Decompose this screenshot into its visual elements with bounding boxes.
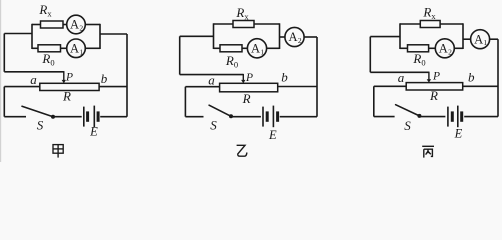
svg-text:A: A bbox=[251, 42, 260, 56]
svg-text:1: 1 bbox=[79, 47, 83, 56]
svg-text:a: a bbox=[398, 70, 405, 85]
svg-text:R: R bbox=[62, 89, 71, 104]
svg-text:A: A bbox=[474, 32, 483, 46]
svg-text:A: A bbox=[439, 42, 448, 56]
svg-text:b: b bbox=[468, 70, 475, 85]
svg-text:2: 2 bbox=[298, 36, 302, 45]
svg-text:a: a bbox=[208, 72, 215, 87]
svg-text:2: 2 bbox=[448, 47, 452, 56]
svg-text:P: P bbox=[65, 72, 73, 84]
svg-text:R: R bbox=[242, 91, 251, 106]
svg-text:A: A bbox=[70, 42, 79, 56]
svg-text:b: b bbox=[281, 69, 288, 84]
svg-text:A: A bbox=[70, 18, 79, 32]
svg-text:P: P bbox=[432, 71, 440, 83]
svg-text:R: R bbox=[429, 88, 438, 103]
svg-text:1: 1 bbox=[260, 47, 264, 56]
svg-text:a: a bbox=[30, 72, 37, 87]
svg-text:S: S bbox=[37, 118, 44, 133]
svg-text:b: b bbox=[101, 71, 108, 86]
svg-text:P: P bbox=[245, 72, 253, 84]
svg-text:E: E bbox=[89, 124, 98, 138]
svg-text:S: S bbox=[404, 118, 411, 133]
svg-text:S: S bbox=[210, 118, 217, 133]
svg-text:A: A bbox=[288, 30, 297, 44]
svg-text:E: E bbox=[268, 128, 277, 142]
svg-text:2: 2 bbox=[79, 24, 83, 33]
svg-text:E: E bbox=[454, 127, 463, 141]
svg-text:1: 1 bbox=[483, 38, 487, 47]
